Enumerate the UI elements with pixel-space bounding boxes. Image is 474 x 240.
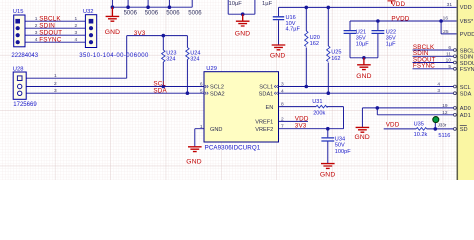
svg-text:GND: GND [270,52,285,59]
svg-text:U35: U35 [414,121,424,127]
svg-text:SDOUT: SDOUT [460,61,474,67]
svg-text:U25: U25 [331,50,341,56]
svg-text:GND: GND [105,29,120,36]
svg-text:4.7µF: 4.7µF [286,27,301,33]
svg-text:AD0: AD0 [460,106,471,112]
svg-text:VREF2: VREF2 [255,127,273,133]
svg-text:10: 10 [446,58,452,64]
svg-text:35V: 35V [386,35,396,41]
svg-text:PCA9306IDCURQ1: PCA9306IDCURQ1 [205,145,261,152]
svg-text:1: 1 [54,73,57,79]
svg-text:4: 4 [75,37,78,43]
svg-text:162: 162 [310,41,319,47]
svg-text:5006: 5006 [124,11,138,17]
svg-text:SD: SD [460,127,468,133]
svg-text:1: 1 [75,16,78,22]
svg-text:U34: U34 [335,137,345,143]
svg-text:350-10-104-00-006000: 350-10-104-00-006000 [79,53,149,59]
svg-text:U32: U32 [83,9,94,15]
svg-text:U24: U24 [190,50,200,56]
svg-text:SDA2: SDA2 [210,91,225,97]
svg-text:1µF: 1µF [262,1,273,7]
svg-text:GND: GND [186,158,201,165]
svg-text:8: 8 [281,102,284,108]
svg-text:19: 19 [442,103,448,109]
svg-text:5: 5 [200,88,203,94]
svg-text:162: 162 [331,56,340,62]
svg-text:35V: 35V [356,35,366,41]
svg-text:GND: GND [210,127,222,133]
svg-text:EN: EN [266,105,274,111]
svg-text:SDA: SDA [460,92,472,98]
svg-text:SBCLK: SBCLK [39,16,61,23]
svg-text:1: 1 [35,16,38,22]
svg-text:VBS*: VBS* [460,19,474,25]
svg-text:1µF: 1µF [386,42,396,48]
svg-text:5: 5 [448,64,451,70]
svg-text:SDOUT: SDOUT [39,30,62,37]
svg-text:10µF: 10µF [356,42,369,48]
svg-text:1: 1 [200,124,203,130]
svg-text:324: 324 [166,57,175,63]
svg-text:6: 6 [200,82,203,88]
svg-text:3: 3 [54,88,57,94]
svg-text:3: 3 [35,30,38,36]
svg-text:SBCLK: SBCLK [460,48,474,54]
svg-text:7: 7 [281,124,284,130]
svg-text:25: 25 [443,29,449,35]
svg-text:PVDD: PVDD [460,32,474,38]
svg-text:100pF: 100pF [335,149,351,155]
svg-text:4: 4 [437,81,440,87]
svg-text:324: 324 [190,57,199,63]
svg-text:FSYNC: FSYNC [39,37,61,44]
svg-text:3: 3 [281,82,284,88]
svg-text:SDA1: SDA1 [259,91,274,97]
svg-text:5006: 5006 [166,11,180,17]
svg-text:31: 31 [447,2,453,8]
svg-text:50V: 50V [335,143,345,149]
svg-text:3: 3 [437,88,440,94]
svg-text:4: 4 [35,37,38,43]
svg-text:22284043: 22284043 [11,53,38,59]
svg-text:SCL2: SCL2 [210,85,224,91]
svg-text:GND: GND [356,73,371,80]
svg-text:SCL: SCL [460,85,471,91]
svg-text:SDA: SDA [153,87,167,94]
svg-text:GND: GND [320,171,335,178]
svg-text:VDD: VDD [391,1,405,8]
svg-text:12: 12 [442,110,448,116]
svg-text:J33r: J33r [438,123,447,128]
svg-text:GND: GND [235,30,250,37]
svg-text:5006: 5006 [145,11,159,17]
svg-text:16: 16 [443,16,449,22]
svg-text:VDD: VDD [386,121,400,128]
svg-text:PVDD: PVDD [391,16,409,23]
svg-text:SDIN: SDIN [460,55,473,61]
svg-text:GND: GND [355,134,370,141]
svg-text:1725669: 1725669 [13,102,37,108]
svg-text:5006: 5006 [188,11,202,17]
svg-text:2: 2 [54,81,57,87]
svg-text:3V3: 3V3 [295,123,307,130]
svg-text:U29: U29 [206,66,217,72]
svg-text:AD1: AD1 [460,113,471,119]
svg-text:10.2k: 10.2k [414,132,428,138]
svg-text:3V3: 3V3 [134,30,146,37]
svg-text:SDIN: SDIN [39,23,55,30]
svg-text:SCL1: SCL1 [259,85,273,91]
svg-text:U23: U23 [166,50,176,56]
svg-text:VDD: VDD [295,116,309,123]
svg-text:U20: U20 [310,35,320,41]
svg-text:U31: U31 [312,99,322,105]
svg-text:2: 2 [281,117,284,123]
svg-text:2: 2 [35,23,38,29]
svg-text:FSYNC: FSYNC [460,67,474,73]
svg-text:200k: 200k [313,111,325,117]
svg-text:2: 2 [75,23,78,29]
svg-text:U15: U15 [13,9,24,15]
svg-text:10µF: 10µF [229,1,243,7]
svg-text:5116: 5116 [438,133,450,139]
svg-text:U28: U28 [13,66,24,72]
svg-text:4: 4 [281,88,284,94]
svg-text:VREF1: VREF1 [255,120,273,126]
svg-text:FSYNC: FSYNC [413,63,435,70]
svg-text:11: 11 [446,51,451,57]
svg-text:3: 3 [75,30,78,36]
svg-text:6: 6 [448,45,451,51]
svg-text:VDD: VDD [460,5,472,11]
